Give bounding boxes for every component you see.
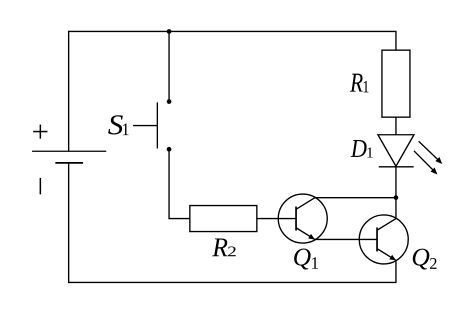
battery + label [33, 125, 47, 139]
label R1 [350, 74, 369, 93]
wire R1 to D1 [395, 117, 397, 135]
label Q2 [413, 249, 437, 270]
wire R2 to Q1 base [257, 218, 296, 220]
LED D1 [378, 135, 414, 167]
switch S1 actuator bar [156, 102, 158, 148]
switch S1 contact top [167, 99, 172, 104]
label Q1 [294, 249, 318, 270]
wire Q2 emitter to bottom rail [395, 260, 397, 282]
wire Q1 collector [315, 197, 396, 199]
wire D1 cathode to junction [395, 167, 397, 198]
label D1 [351, 140, 373, 157]
node junction top [167, 29, 172, 34]
wire battery − to bottom rail [68, 163, 70, 283]
wire top rail to R1 [395, 31, 397, 50]
switch S1 stem [133, 125, 157, 127]
wire switch top lead [168, 31, 170, 101]
resistor R2 [190, 206, 257, 232]
transistor Q2 [359, 215, 408, 264]
wire top rail [68, 30, 397, 32]
battery − label (rotated minus) [39, 178, 41, 194]
label S1 [108, 115, 128, 135]
wire left from top rail to battery + plate [68, 31, 70, 151]
LED light arrow 1 [419, 141, 443, 164]
resistor R1 [382, 50, 410, 117]
wire bottom rail [68, 281, 397, 283]
node junction collector [394, 195, 399, 200]
wire Q2 collector to junction [395, 198, 397, 219]
battery positive plate [32, 150, 106, 152]
label R2 [212, 238, 236, 256]
LED light arrow 2 [414, 151, 438, 175]
switch S1 contact bottom [167, 147, 172, 152]
wire switch to R2 [169, 149, 190, 218]
transistor Q1 [278, 194, 327, 243]
wire Q1 emitter to Q2 base [315, 238, 377, 240]
battery negative plate [55, 162, 83, 164]
